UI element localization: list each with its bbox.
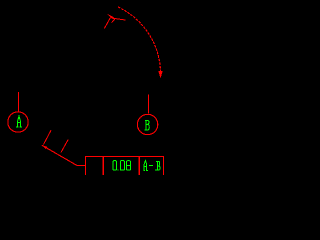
wire: indicator tail line xyxy=(113,18,126,20)
wire: datum B leader line xyxy=(147,95,149,114)
wire: leader arrowhead xyxy=(42,145,47,149)
wire: surface edge segment upper xyxy=(104,18,110,29)
wire: surface edge segment lower right xyxy=(61,140,68,153)
label B xyxy=(145,120,150,130)
wire: datum A leader line xyxy=(17,92,19,112)
value 0.08 xyxy=(113,161,130,171)
wire: surface edge segment upper short xyxy=(112,19,115,23)
wire: leader to feature control frame xyxy=(42,145,86,165)
wire: surface edge segment lower left xyxy=(44,130,52,144)
datum reference A-B xyxy=(143,161,160,171)
node: feature control frame xyxy=(86,157,164,176)
node B: datum B circle xyxy=(137,114,157,134)
label A xyxy=(16,116,22,127)
wire: arc arrowhead pointing down xyxy=(158,71,162,78)
wire: indicator pointer arrowhead at top xyxy=(107,14,114,19)
wire: rotation arc around datum axis xyxy=(118,7,161,71)
node A: datum A circle xyxy=(8,112,28,132)
